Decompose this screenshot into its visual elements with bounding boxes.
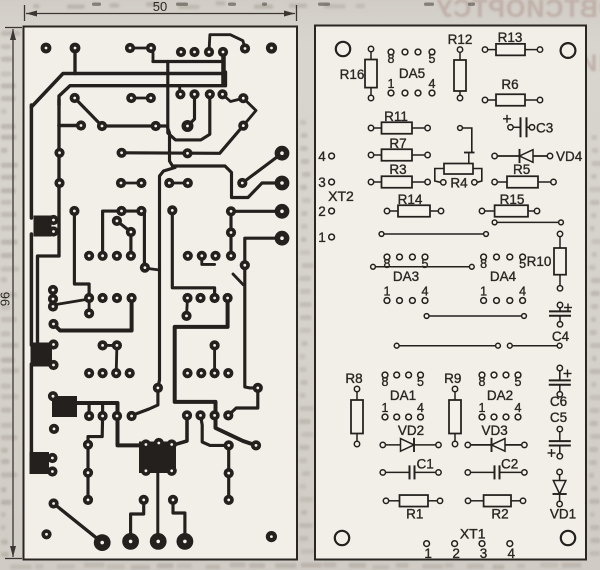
svg-text:8: 8 [384,257,391,271]
svg-text:8: 8 [479,375,486,389]
svg-text:1: 1 [388,77,395,91]
svg-text:4: 4 [515,401,522,415]
svg-text:R11: R11 [384,109,408,124]
svg-text:5: 5 [429,52,436,66]
svg-text:DA4: DA4 [490,269,517,284]
svg-text:4: 4 [422,285,429,299]
svg-text:C2: C2 [501,457,518,472]
svg-text:96: 96 [0,292,13,306]
svg-text:5: 5 [422,257,429,271]
svg-text:R9: R9 [444,371,461,386]
svg-text:VD3: VD3 [481,423,507,438]
svg-text:R7: R7 [389,136,406,151]
svg-text:8: 8 [480,257,487,271]
svg-text:4: 4 [508,546,516,561]
svg-text:R5: R5 [513,162,530,177]
svg-text:VD4: VD4 [556,149,583,164]
svg-text:1: 1 [318,230,326,245]
svg-text:4: 4 [318,149,326,164]
svg-text:3: 3 [480,546,488,561]
svg-text:C4: C4 [552,329,570,344]
svg-text:3: 3 [318,175,326,190]
svg-text:XT1: XT1 [460,526,486,542]
svg-text:R4: R4 [450,176,468,191]
svg-text:R3: R3 [389,162,406,177]
svg-text:8: 8 [382,375,389,389]
svg-text:8: 8 [388,52,395,66]
svg-text:R10: R10 [527,254,552,269]
svg-text:R6: R6 [501,77,518,92]
svg-text:R15: R15 [500,192,525,207]
svg-text:R16: R16 [340,67,365,82]
svg-text:C3: C3 [536,120,553,135]
svg-text:DA3: DA3 [393,269,419,284]
svg-text:4: 4 [417,401,424,415]
svg-text:2: 2 [318,204,326,219]
svg-text:C5: C5 [550,410,567,425]
svg-text:5: 5 [515,375,522,389]
svg-text:5: 5 [417,375,424,389]
svg-text:R1: R1 [406,507,423,522]
svg-text:1: 1 [382,401,389,415]
svg-text:DA2: DA2 [487,388,513,403]
svg-text:XT2: XT2 [328,188,354,204]
svg-text:C6: C6 [550,394,567,409]
svg-text:1: 1 [479,401,486,415]
svg-text:2: 2 [452,546,460,561]
svg-text:4: 4 [429,77,436,91]
svg-text:VD1: VD1 [550,507,576,522]
svg-text:VD2: VD2 [398,423,424,438]
svg-text:C1: C1 [417,457,434,472]
svg-text:1: 1 [424,546,432,561]
svg-text:R13: R13 [498,30,523,45]
svg-text:DA1: DA1 [390,388,416,403]
svg-text:1: 1 [384,285,391,299]
svg-text:R14: R14 [398,192,423,207]
svg-text:R2: R2 [491,507,508,522]
svg-text:1: 1 [480,285,487,299]
svg-text:DA5: DA5 [399,66,425,81]
svg-text:R12: R12 [448,32,473,47]
svg-text:5: 5 [519,257,526,271]
svg-text:R8: R8 [345,371,362,386]
svg-text:4: 4 [519,285,526,299]
svg-text:50: 50 [153,0,167,14]
